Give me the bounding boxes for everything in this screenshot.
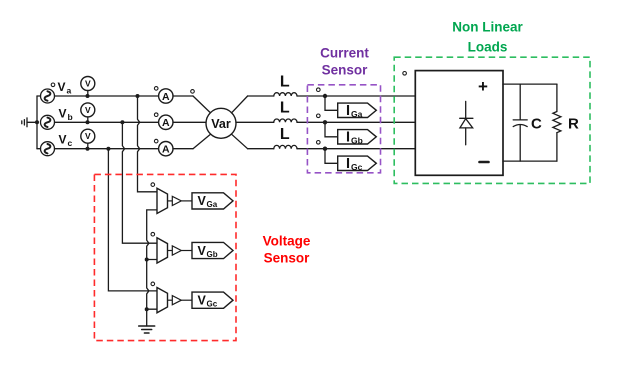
svg-text:Ga: Ga: [207, 200, 218, 209]
svg-text:V: V: [198, 244, 207, 258]
svg-text:A: A: [162, 117, 170, 129]
svg-text:Loads: Loads: [468, 40, 508, 55]
svg-text:b: b: [68, 112, 73, 122]
svg-text:Voltage: Voltage: [263, 234, 311, 249]
svg-text:A: A: [162, 91, 170, 103]
svg-text:V: V: [85, 105, 91, 115]
svg-text:Gc: Gc: [207, 300, 218, 309]
svg-text:V: V: [198, 194, 207, 208]
svg-text:Var: Var: [211, 117, 231, 131]
svg-text:Gc: Gc: [351, 162, 363, 172]
svg-text:V: V: [85, 79, 91, 89]
svg-text:L: L: [280, 73, 290, 90]
svg-text:a: a: [67, 86, 72, 96]
svg-text:V: V: [59, 133, 67, 147]
svg-text:+: +: [478, 77, 488, 96]
svg-text:Current: Current: [320, 46, 369, 61]
svg-text:Gb: Gb: [207, 250, 218, 259]
svg-text:Gb: Gb: [351, 135, 363, 145]
svg-text:Ga: Ga: [351, 109, 363, 119]
svg-text:A: A: [162, 144, 170, 156]
svg-text:I: I: [346, 129, 350, 145]
svg-text:Sensor: Sensor: [264, 251, 311, 266]
svg-text:L: L: [280, 100, 290, 117]
svg-text:V: V: [59, 106, 67, 120]
svg-text:I: I: [346, 156, 350, 172]
svg-text:I: I: [346, 103, 350, 119]
svg-text:Sensor: Sensor: [322, 63, 369, 78]
svg-text:R: R: [568, 116, 579, 133]
svg-text:C: C: [531, 116, 542, 133]
svg-text:Non Linear: Non Linear: [452, 20, 523, 35]
svg-text:L: L: [280, 126, 290, 143]
svg-text:V: V: [198, 294, 207, 308]
svg-text:V: V: [85, 131, 91, 141]
svg-text:c: c: [68, 138, 73, 148]
svg-text:V: V: [58, 80, 66, 94]
